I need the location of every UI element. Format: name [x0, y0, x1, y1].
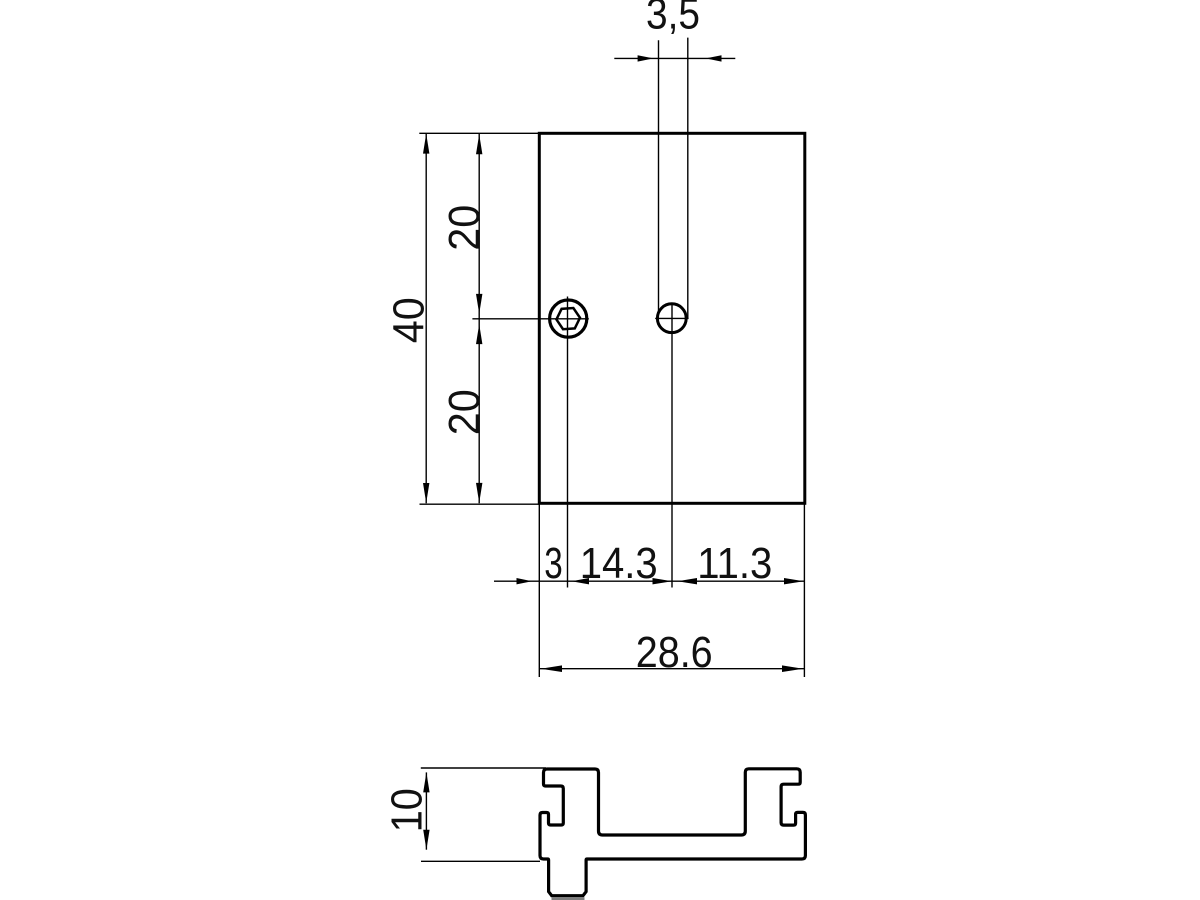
- arrow 3 (right-pointing): [517, 578, 533, 584]
- extension line left edge below: [538, 503, 540, 677]
- arrow 10 top (up): [423, 772, 429, 792]
- arrow 40 bottom (down): [423, 483, 429, 503]
- centerline round hole vertical: [671, 303, 673, 588]
- plan view plate outline: [539, 133, 805, 503]
- centerline hex hole horizontal: [472, 318, 588, 320]
- svg-text:11.3: 11.3: [697, 540, 772, 588]
- dim line 10: [425, 772, 427, 849]
- hex socket hexagon: [556, 308, 581, 330]
- dim line 3,5: [614, 57, 735, 59]
- extension line bottom (40/20 dims): [420, 503, 541, 505]
- arrow 11.3 left (left-pointing): [678, 578, 698, 584]
- arrow 11.3 right (right-pointing): [784, 578, 804, 584]
- arrow 20 bottom (down): [476, 483, 482, 503]
- svg-text:20: 20: [441, 205, 489, 251]
- profile cross-section outline: [540, 769, 805, 896]
- svg-text:28.6: 28.6: [636, 629, 713, 677]
- arrow 20 top (up): [476, 134, 482, 154]
- arrows: [423, 55, 804, 850]
- centerline round hole horizontal: [655, 317, 688, 319]
- svg-text:20: 20: [441, 389, 489, 435]
- gray shadow under tab: [552, 897, 585, 900]
- arrow 14.3 right (right-pointing): [653, 578, 673, 584]
- svg-text:10: 10: [384, 788, 432, 832]
- round hole: [657, 304, 686, 333]
- svg-text:3: 3: [544, 540, 563, 588]
- arrow 10 bottom (down): [423, 830, 429, 850]
- arrow 20 mid lower (up): [476, 324, 482, 344]
- arrow 28.6 left (left-pointing): [541, 665, 562, 672]
- extension line 3,5 right: [687, 38, 689, 319]
- dim line 20/20: [478, 133, 480, 503]
- arrow 28.6 right (right-pointing): [782, 665, 803, 672]
- hex socket hole circle: [550, 300, 587, 337]
- arrow 3,5 right (left-pointing): [706, 55, 722, 61]
- svg-text:40: 40: [386, 297, 434, 343]
- arrow 20 mid upper (down): [476, 294, 482, 314]
- extension line 3,5 left: [658, 40, 660, 313]
- arrow 40 top (up): [423, 134, 429, 154]
- extension line right edge below: [803, 503, 805, 677]
- extension line profile bottom: [421, 860, 540, 862]
- svg-text:3,5: 3,5: [646, 0, 700, 39]
- extension line top (40/20 dims): [419, 132, 540, 134]
- arrow 3,5 left (right-pointing): [638, 55, 654, 61]
- dim line 40: [425, 133, 427, 503]
- svg-text:14.3: 14.3: [580, 540, 658, 588]
- arrow 14.3 left (left-pointing): [572, 578, 590, 584]
- dim line 3/14.3/11.3: [494, 580, 804, 582]
- extension line profile top: [421, 767, 546, 769]
- centerline hex hole vertical: [567, 297, 569, 588]
- dim line 28.6: [539, 668, 804, 670]
